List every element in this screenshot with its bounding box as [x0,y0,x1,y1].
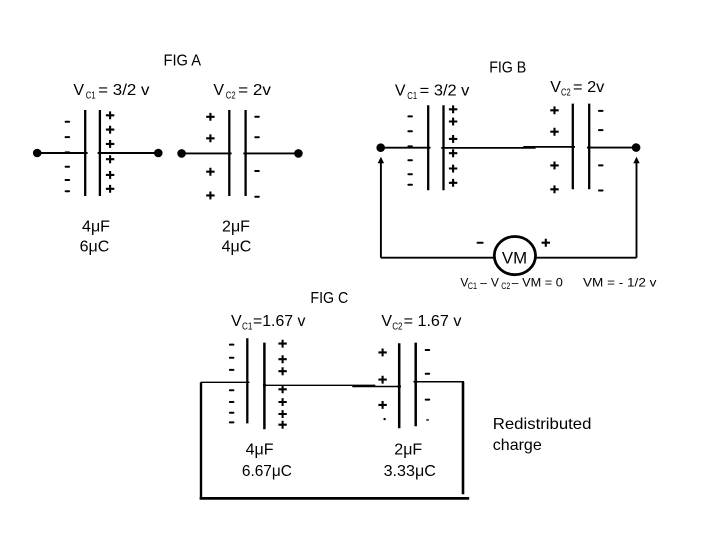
wire left side of loop box (FIG C) [200,382,202,497]
label VC1 = 3/2 v (FIG B) [395,83,470,103]
svg-text:V: V [550,79,561,96]
svg-text:= 3/2 v: = 3/2 v [98,82,149,99]
minus polarity sign left of VM [477,242,484,244]
svg-text:C2: C2 [561,88,571,99]
svg-text:FIG A: FIG A [164,52,202,69]
plus polarity sign right of VM [542,239,550,247]
partial negative charge mark (FIG C C2) [426,419,429,420]
arrowhead up on right loop wire (FIG B) [633,157,639,163]
svg-text:= 2v: = 2v [573,79,604,96]
wire middle segment 2 (FIG C) [352,386,401,388]
negative charges on C1 left plate (FIG A) [65,121,71,192]
svg-text:C2: C2 [226,91,236,102]
capacitor C1 left plate (FIG A) [84,110,86,196]
svg-text:V: V [73,82,84,99]
negative charges on C2 right plate (FIG B) [598,110,604,192]
capacitor C1 left plate (FIG C) [246,338,248,423]
capacitor C1 right plate (FIG A) [99,110,101,196]
negative charges on C1 left plate (FIG C) [229,344,235,424]
label VC2= 1.67 v (FIG C) [381,313,461,333]
node dot right terminal C1 (FIG A) [154,149,163,158]
positive charges on C1 right plate (FIG C) [278,340,286,429]
svg-text:6μC: 6μC [80,239,110,256]
svg-text:–: – [512,275,519,289]
capacitor C2 left plate (FIG A) [228,110,230,196]
node dot left terminal C2 (FIG A) [177,149,186,158]
capacitor C1 right plate (FIG C) [263,343,266,430]
arrowhead up on left loop wire (FIG B) [378,157,384,163]
node dot right terminal (FIG B) [632,143,641,152]
node dot right terminal C2 (FIG A) [294,149,303,158]
voltmeter VM circle (FIG B) [494,237,535,275]
positive charges on C1 right plate (FIG A) [106,111,114,192]
wire bottom of loop box (FIG C) [200,497,470,500]
positive charges on C1 right plate (FIG B) [449,105,457,186]
svg-text:4μF: 4μF [82,219,110,236]
capacitor C2 right plate (FIG C) [414,343,417,427]
svg-text:Redistributed: Redistributed [493,416,592,433]
wire top right lead (FIG C) [413,381,464,383]
label VC1 = 3/2 v (FIG A) [73,82,149,102]
wire middle segment 1 (FIG C) [264,384,375,386]
svg-text:=1.67 v: =1.67 v [253,313,305,330]
positive charges on C2 left plate (FIG C) [378,349,386,409]
svg-text:VM = - 1/2 v: VM = - 1/2 v [583,275,656,289]
wire left loop vertical (FIG B) [380,160,382,258]
label VC2 = 2v (FIG A) [213,82,271,102]
svg-text:6.67μC: 6.67μC [242,463,292,480]
svg-text:C1: C1 [407,91,417,102]
wire right lead C2 (FIG A) [243,152,298,154]
svg-text:4μC: 4μC [222,239,252,256]
node dot left terminal C1 (FIG A) [33,149,42,158]
junction tick C2 left plate (FIG C) [398,385,401,388]
wire right loop vertical (FIG B) [636,160,638,258]
svg-text:= 2v: = 2v [238,82,271,99]
wire left lead C1 (FIG B) [381,147,431,149]
node dot left terminal (FIG B) [376,143,385,152]
label VC2 = 2v (FIG B) [550,79,604,99]
wire bottom loop (FIG B) [381,257,637,259]
negative charges on C2 right plate (FIG A) [254,116,259,198]
negative charges on C1 left plate (FIG B) [407,115,413,185]
wire middle segment 2 (FIG B) [523,146,575,148]
annotation Redistributed charge [493,416,592,454]
capacitor C2 right plate (FIG A) [244,110,246,196]
positive charges on C2 left plate (FIG B) [550,106,558,193]
svg-text:V: V [213,82,224,99]
svg-text:= 1.67 v: = 1.67 v [404,313,462,330]
svg-text:V: V [395,83,406,100]
capacitor C1 right plate (FIG B) [442,105,444,190]
equation VC1 - VC2 - VM = 0 (FIG B) [460,275,563,292]
wire left lead C2 (FIG A) [182,152,232,154]
svg-text:VM: VM [502,249,527,268]
svg-text:–: – [480,275,487,289]
svg-text:= 3/2 v: = 3/2 v [420,83,470,100]
svg-text:FIG B: FIG B [489,60,526,77]
svg-text:4μF: 4μF [246,442,274,459]
svg-text:C2: C2 [392,321,403,332]
negative charges on C2 right plate (FIG C) [425,349,431,401]
positive charges on C2 left plate (FIG A) [206,113,214,199]
svg-text:3.33μC: 3.33μC [384,463,436,480]
svg-text:FIG C: FIG C [310,290,348,307]
svg-text:C1: C1 [86,91,96,102]
wire right lead C1 (FIG A) [98,152,159,154]
svg-text:2μF: 2μF [394,442,422,459]
svg-text:charge: charge [493,437,542,454]
svg-text:V: V [231,313,242,330]
svg-text:C2: C2 [501,281,510,292]
wire right side of loop box (FIG C) [462,382,465,495]
junction tick C1 right plate (FIG C) [263,384,266,387]
wire left lead C1 (FIG A) [37,152,87,154]
partial positive charge dot (FIG C C2) [383,418,385,420]
capacitor C2 left plate (FIG B) [572,104,574,190]
wire middle segment 1 (FIG B) [441,147,535,149]
capacitor C1 left plate (FIG B) [427,105,429,190]
svg-text:V: V [491,275,499,289]
wire top left lead (FIG C) [201,381,250,383]
svg-text:C1: C1 [242,321,253,332]
svg-text:2μF: 2μF [222,219,250,236]
wire right lead C2 (FIG B) [587,147,636,149]
svg-text:V: V [381,313,392,330]
svg-text:C1: C1 [468,281,477,292]
label VC1=1.67 v (FIG C) [231,313,305,333]
capacitor C2 right plate (FIG B) [588,104,590,190]
svg-text:VM = 0: VM = 0 [522,275,563,289]
capacitor C2 left plate (FIG C) [398,343,401,428]
